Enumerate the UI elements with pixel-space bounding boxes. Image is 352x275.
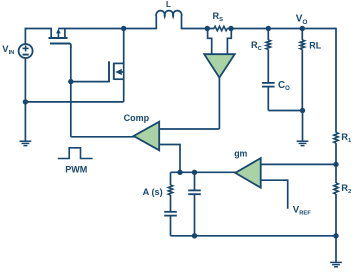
node FB tap bbox=[333, 162, 338, 167]
wire sense output to comp + input bbox=[159, 128, 219, 130]
node comp B bbox=[192, 170, 197, 175]
wire right branch top bbox=[194, 172, 196, 190]
wire R2 bottom bbox=[335, 194, 337, 236]
node Rs right bbox=[228, 26, 233, 31]
wire Rs right sense lead bbox=[227, 29, 231, 55]
node SW junction (NMOS drain) bbox=[121, 26, 126, 31]
capacitor CO bbox=[262, 82, 275, 84]
PWM waveform symbol bbox=[58, 148, 93, 159]
wire comp - input to comp node bbox=[159, 145, 180, 173]
ground G2 bbox=[297, 140, 309, 142]
source VIN bbox=[19, 44, 33, 58]
wire to ground G1 bbox=[24, 102, 26, 141]
wire Rs left sense lead bbox=[208, 29, 212, 55]
wire to ground G2 bbox=[302, 111, 304, 142]
wire gm output rail bbox=[171, 171, 237, 173]
svg-text:RL: RL bbox=[309, 40, 321, 50]
op-amp Comp (triangle left) bbox=[134, 122, 160, 151]
svg-text:R2: R2 bbox=[341, 182, 351, 195]
wire top rail from PMOS to inductor bbox=[58, 28, 156, 30]
wire left branch mid bbox=[170, 195, 172, 211]
svg-text:VIN: VIN bbox=[2, 43, 14, 56]
wire to ground G3 bbox=[335, 236, 337, 263]
svg-text:L: L bbox=[166, 0, 171, 9]
node Vo bbox=[300, 26, 305, 31]
node R2 bottom junction bbox=[333, 233, 338, 238]
wire top rail inductor to Rs bbox=[182, 28, 209, 30]
transistor Q1 (PMOS high-side switch) bbox=[49, 29, 71, 49]
node gate junction bbox=[68, 79, 73, 84]
resistor RC (ESR) bbox=[266, 40, 270, 49]
node output return bbox=[300, 108, 305, 113]
wire RL bottom lead bbox=[301, 49, 303, 110]
node bottom rail under C2 bbox=[192, 233, 197, 238]
wire source return bbox=[25, 101, 123, 103]
svg-text:RS: RS bbox=[213, 11, 224, 23]
svg-text:VO: VO bbox=[296, 14, 308, 26]
wire NMOS drain-source vertical bbox=[123, 29, 125, 102]
wire left branch bottom bbox=[170, 216, 172, 236]
wire top rail from Vin to PMOS source bbox=[25, 28, 52, 30]
svg-text:RC: RC bbox=[251, 40, 263, 52]
ground G3 bbox=[330, 261, 342, 263]
wire bottom rail bbox=[171, 235, 337, 237]
wire sense amp output down bbox=[218, 78, 220, 129]
inductor L bbox=[156, 11, 182, 30]
wire Co bottom bbox=[267, 87, 269, 111]
op-amp gm error amp (triangle left) bbox=[235, 158, 260, 188]
wire RL top lead bbox=[301, 29, 303, 41]
wire Rc to Co bbox=[267, 49, 269, 83]
wire gate node horizontal bbox=[71, 81, 109, 83]
wire top rail Rs to right corner bbox=[231, 28, 336, 30]
node Rc top bbox=[266, 26, 271, 31]
wire gate node down to comp output bbox=[70, 82, 72, 137]
ground G1 bbox=[20, 140, 32, 142]
wire right rail down from Vo bbox=[335, 28, 337, 133]
resistor RS (sense) bbox=[208, 28, 214, 30]
wire right branch bottom bbox=[194, 194, 196, 236]
resistor R2 bbox=[334, 183, 338, 194]
svg-text:VREF: VREF bbox=[293, 204, 311, 216]
node Vin return junction bbox=[23, 99, 28, 104]
wire PMOS gate vertical bbox=[70, 44, 72, 82]
resistor RL (load) bbox=[300, 40, 304, 49]
wire R1 to tap bbox=[335, 143, 337, 183]
svg-text:Comp: Comp bbox=[124, 113, 150, 123]
wire Vin bottom lead bbox=[24, 58, 26, 102]
wire comp output bbox=[71, 136, 135, 138]
resistor R1 bbox=[334, 133, 338, 144]
resistor A(s) branch bbox=[168, 185, 172, 195]
svg-text:CO: CO bbox=[278, 80, 290, 92]
wire left branch jog bbox=[170, 172, 172, 185]
capacitor C1 (series) bbox=[164, 211, 177, 213]
node comp A bbox=[177, 170, 182, 175]
svg-text:PWM: PWM bbox=[65, 164, 87, 174]
node Rs left bbox=[205, 26, 210, 31]
wire Co return to RL bottom bbox=[268, 110, 302, 112]
transistor Q2 (NMOS low-side) bbox=[109, 61, 124, 82]
svg-text:gm: gm bbox=[234, 149, 247, 159]
wire Rc top lead bbox=[267, 29, 269, 41]
capacitor C2 (parallel) bbox=[188, 189, 201, 191]
wire gm + input from FB tap bbox=[261, 163, 336, 165]
wire gm - input to Vref bbox=[261, 180, 288, 209]
svg-text:A (s): A (s) bbox=[143, 187, 163, 197]
svg-text:R1: R1 bbox=[341, 131, 352, 144]
op-amp U1 current sense (triangle down) bbox=[204, 54, 235, 77]
wire Vin top lead bbox=[24, 28, 26, 44]
